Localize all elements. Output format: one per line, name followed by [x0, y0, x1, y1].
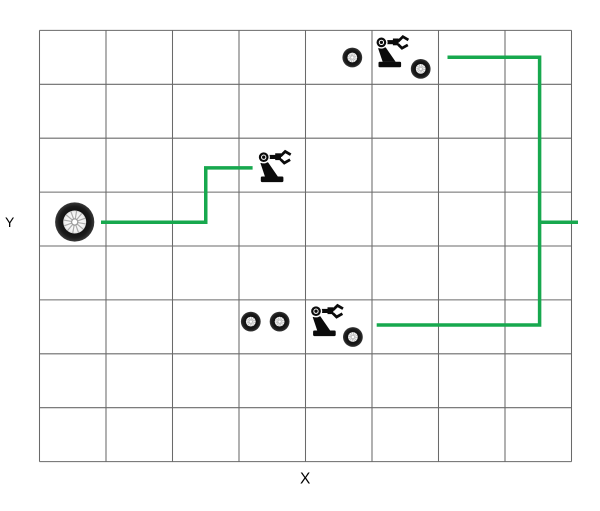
robot arm U1	[375, 36, 408, 67]
wheel W3	[411, 59, 431, 79]
robot arm U3	[310, 305, 343, 336]
robot arm U2	[258, 151, 291, 182]
wire: wheel W1 to robot arm U2 (path A)	[101, 168, 253, 222]
wheel W5	[270, 312, 290, 332]
wheel W4	[241, 312, 261, 332]
wire: branch to right edge	[540, 221, 578, 225]
svg-text:Y: Y	[5, 214, 15, 230]
wheel W1	[55, 202, 94, 241]
wheel W6	[343, 327, 363, 347]
svg-text:X: X	[300, 471, 311, 488]
wheel W2	[342, 48, 362, 68]
wire: station U1 down to station U3 (path B)	[377, 57, 540, 325]
